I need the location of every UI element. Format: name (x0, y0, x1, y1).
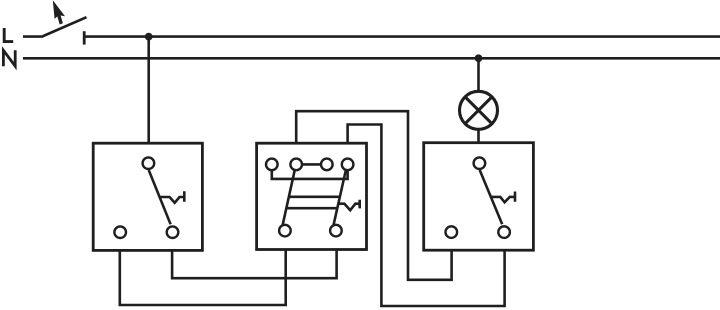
wire S2 terminal2 to S3 bottom-left (296, 111, 451, 280)
junction on N (475, 54, 483, 62)
S2 lever left (283, 170, 295, 225)
S1 terminal top (143, 157, 155, 169)
wire lamp to S3 (477, 130, 480, 143)
S3 terminal bottom-left (446, 226, 458, 238)
S2 actuator (338, 200, 359, 210)
switch S2 box (intermediate) (257, 143, 367, 249)
switch S3 box (424, 143, 534, 251)
wire L left stub (23, 35, 41, 38)
switch S1 box (93, 143, 202, 250)
S2 terminal bottom-left (279, 225, 291, 237)
junction on L (145, 33, 153, 41)
lamp E1 (460, 91, 498, 129)
net label N (3, 50, 15, 66)
S3 actuator (492, 192, 516, 203)
wire N (23, 57, 720, 60)
S2 coupling rung upper (288, 196, 340, 199)
S2 bridge terminal1-terminal4 (272, 170, 348, 179)
S2 terminal 4 (342, 159, 354, 171)
switch S0 lever (service switch on L) (41, 17, 87, 37)
S2 terminal bottom-right (330, 225, 342, 237)
S2 coupling rung lower (286, 207, 338, 210)
wire S1 bottom-left to S2 bottom-left (120, 250, 286, 306)
switch S0 fixed contact bar (83, 31, 86, 44)
S2 terminal 2 (290, 159, 302, 171)
S3 lever (480, 170, 503, 224)
S2 link terminal2-terminal3 (302, 163, 321, 166)
wire S2 terminal4 to S3 bottom-right (348, 125, 505, 307)
wire L junction to S1 (147, 37, 150, 143)
S1 terminal bottom-right (167, 226, 179, 238)
S1 actuator (161, 191, 185, 203)
S1 lever (149, 170, 171, 224)
S3 terminal bottom-right (498, 226, 510, 238)
S2 terminal 1 (266, 159, 278, 171)
net label L (4, 28, 13, 42)
wire S1 bottom-right to S2 bottom-right (172, 250, 337, 279)
switch S0 actuation arrow (53, 1, 64, 24)
wire L main run (84, 35, 720, 38)
S1 terminal bottom-left (114, 226, 126, 238)
wire N junction to lamp (477, 58, 480, 91)
S3 terminal top (474, 157, 486, 169)
S2 lever right (334, 170, 346, 225)
S2 terminal 3 (321, 159, 333, 171)
